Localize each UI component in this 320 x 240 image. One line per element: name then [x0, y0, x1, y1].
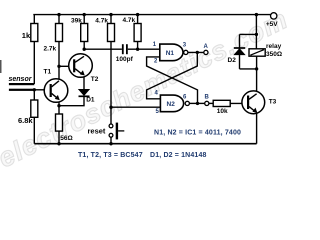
svg-text:T1: T1: [44, 69, 52, 76]
svg-text:350Ω: 350Ω: [266, 51, 282, 58]
svg-text:+5V: +5V: [266, 21, 278, 28]
svg-text:10k: 10k: [217, 108, 228, 115]
svg-text:4.7k: 4.7k: [123, 17, 136, 24]
svg-text:N1, N2 = IC1 = 4011, 7400: N1, N2 = IC1 = 4011, 7400: [154, 130, 241, 137]
svg-text:T1, T2, T3 = BC547: T1, T2, T3 = BC547: [78, 152, 143, 159]
svg-text:56Ω: 56Ω: [60, 135, 72, 142]
svg-text:relay: relay: [266, 43, 282, 50]
svg-text:1k: 1k: [22, 31, 31, 40]
svg-text:N1: N1: [166, 50, 175, 57]
svg-text:6.8k: 6.8k: [18, 116, 33, 125]
svg-text:100pf: 100pf: [116, 56, 134, 63]
svg-text:T2: T2: [91, 76, 99, 83]
svg-text:B: B: [205, 94, 210, 100]
svg-text:sensor: sensor: [9, 76, 33, 83]
svg-text:D1: D1: [86, 97, 95, 104]
svg-text:D2: D2: [228, 57, 237, 64]
svg-text:A: A: [204, 44, 209, 50]
svg-text:T3: T3: [269, 99, 277, 106]
svg-text:2.7k: 2.7k: [44, 46, 57, 53]
svg-text:reset: reset: [88, 126, 106, 135]
svg-text:D1, D2 = 1N4148: D1, D2 = 1N4148: [150, 152, 207, 159]
svg-text:4.7k: 4.7k: [95, 17, 108, 24]
svg-text:N2: N2: [167, 101, 176, 108]
svg-text:39k: 39k: [71, 17, 82, 24]
